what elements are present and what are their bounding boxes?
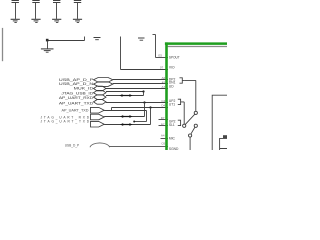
- chip U1 highlighted border (selected): [165, 42, 227, 150]
- wire hex3 MUK_ID to pin A7: [106, 88, 168, 90]
- bracket UP2/UT1: [178, 99, 184, 104]
- node junction dot: [46, 39, 49, 42]
- wire ground stem: [47, 41, 49, 49]
- svg-text:MUK_ID: MUK_ID: [74, 87, 94, 91]
- svg-text:C6: C6: [161, 141, 165, 145]
- block outline inside chip: [212, 95, 227, 150]
- arrow B on pent2 wire: [120, 115, 132, 118]
- off-page connector hex5: [94, 95, 107, 100]
- off-page connector hex2: [94, 82, 113, 87]
- node end dot: [133, 121, 135, 123]
- svg-text:VIO: VIO: [169, 66, 175, 70]
- off-page connector pent3: [91, 121, 105, 127]
- switch contact Z: [189, 134, 192, 137]
- block tab: [223, 135, 227, 138]
- off-page connector hex1: [94, 78, 113, 83]
- node junction hex4: [142, 90, 144, 92]
- bracket DP2/DN1: [180, 78, 185, 83]
- wire pent3 JTAG_UART_TXD: [104, 124, 150, 126]
- wire to pin D4: [112, 107, 169, 109]
- svg-text:SPOUT: SPOUT: [169, 55, 180, 59]
- svg-text:SL1: SL1: [169, 123, 175, 127]
- svg-text:C4: C4: [161, 99, 165, 103]
- capacitor C1 to ground: [11, 1, 20, 23]
- off-page connector pent1: [91, 107, 105, 113]
- off-page connector pent2: [91, 114, 105, 120]
- pin names column: [169, 55, 180, 151]
- wire pin stub A4: [161, 138, 169, 140]
- wire VIO horizontal to pin: [121, 69, 169, 71]
- wire jog pent1 to D4: [111, 108, 113, 111]
- svg-text:AP_UART_TXD: AP_UART_TXD: [59, 102, 94, 106]
- wire stub up at right end: [84, 37, 86, 41]
- switch blade R-Z: [191, 127, 195, 133]
- wire hex5 AP_UART_RXD: [106, 95, 144, 97]
- svg-text:UT1: UT1: [169, 102, 175, 106]
- wire D4 drop to pent3: [150, 108, 152, 125]
- wire hex6 AP_UART_TXD to pin C4: [106, 102, 168, 104]
- wire SPOUT vertical: [155, 35, 157, 58]
- wire switch common: [185, 80, 196, 111]
- wire hex2 USB_AP_D_N to pin A5: [113, 83, 168, 85]
- wire hex1 USB_AP_D_P to pin A6: [113, 79, 168, 81]
- net labels left column: [41, 78, 95, 148]
- bracket GP2/SL1: [178, 120, 181, 125]
- chip U1 top border: [168, 46, 227, 48]
- svg-text:USB_D_P: USB_D_P: [65, 144, 80, 148]
- wire SPOUT tick: [153, 34, 156, 36]
- off-page connector hex3: [94, 86, 107, 91]
- capacitor C3 to ground: [52, 1, 61, 23]
- arrow C on pent3 wire: [120, 123, 132, 126]
- ground G2 small: [94, 38, 101, 40]
- off-page connector USB_D_P dome: [90, 143, 110, 147]
- off-page connector hex6: [94, 100, 107, 105]
- svg-text:A4: A4: [161, 134, 165, 138]
- wire hex4 JTAG_USB_ID: [106, 91, 144, 93]
- wire pin stub D7: [159, 119, 169, 121]
- ground G3 small: [138, 38, 145, 40]
- node junction D4: [149, 106, 151, 108]
- svg-text:AP_UART_TXD: AP_UART_TXD: [62, 108, 90, 112]
- node junction hex6: [143, 101, 145, 103]
- wire pent1 AP_UART_TXD: [104, 110, 146, 112]
- wire pent2 JTAG_UART_RXD: [104, 116, 144, 118]
- switch contact R: [194, 124, 197, 127]
- ground G1: [41, 49, 54, 52]
- wire USB_D_P to pin C6: [110, 146, 169, 148]
- wire hex4 drop: [143, 92, 145, 96]
- inner block: [220, 138, 227, 150]
- wire VIO vertical: [120, 37, 122, 70]
- svg-text:07: 07: [160, 65, 164, 69]
- capacitor C2 to ground: [31, 1, 40, 23]
- wire SPOUT horizontal to pin: [156, 57, 169, 59]
- wire pin stub B7: [159, 125, 169, 127]
- svg-text:A5: A5: [162, 80, 166, 84]
- wire GND net horizontal: [48, 40, 85, 42]
- svg-text:MIC: MIC: [169, 136, 176, 140]
- svg-text:A7: A7: [162, 85, 166, 89]
- svg-text:USB_AP_D_N: USB_AP_D_N: [59, 82, 94, 86]
- svg-text:D7: D7: [161, 116, 165, 120]
- arrow A on hex5 wire: [119, 94, 132, 97]
- svg-text:AP_UART_RXD: AP_UART_RXD: [59, 96, 94, 100]
- svg-text:SGND: SGND: [169, 147, 179, 150]
- switch contact X: [194, 111, 197, 114]
- capacitor C4 to ground: [73, 1, 82, 23]
- wire hex6 drop to pent2: [144, 103, 146, 117]
- wire pent1 drop: [146, 111, 148, 122]
- svg-text:E5: E5: [158, 54, 162, 58]
- switch blade X-L: [185, 114, 194, 124]
- svg-text:D4: D4: [161, 104, 165, 108]
- wire pent1 back: [134, 121, 147, 123]
- wire bracket B2 to L: [183, 102, 185, 124]
- wire below Z: [189, 137, 191, 150]
- svg-text:JTAG_UART_TXD: JTAG_UART_TXD: [41, 120, 90, 124]
- svg-text:UD: UD: [169, 84, 174, 88]
- off-page connector hex4: [94, 90, 107, 95]
- pin numbers column: [158, 54, 165, 146]
- svg-text:JTAG_USB_ID: JTAG_USB_ID: [61, 91, 94, 95]
- svg-text:B7: B7: [161, 122, 165, 126]
- switch contact L: [183, 124, 186, 127]
- sheet border segment left: [2, 28, 4, 61]
